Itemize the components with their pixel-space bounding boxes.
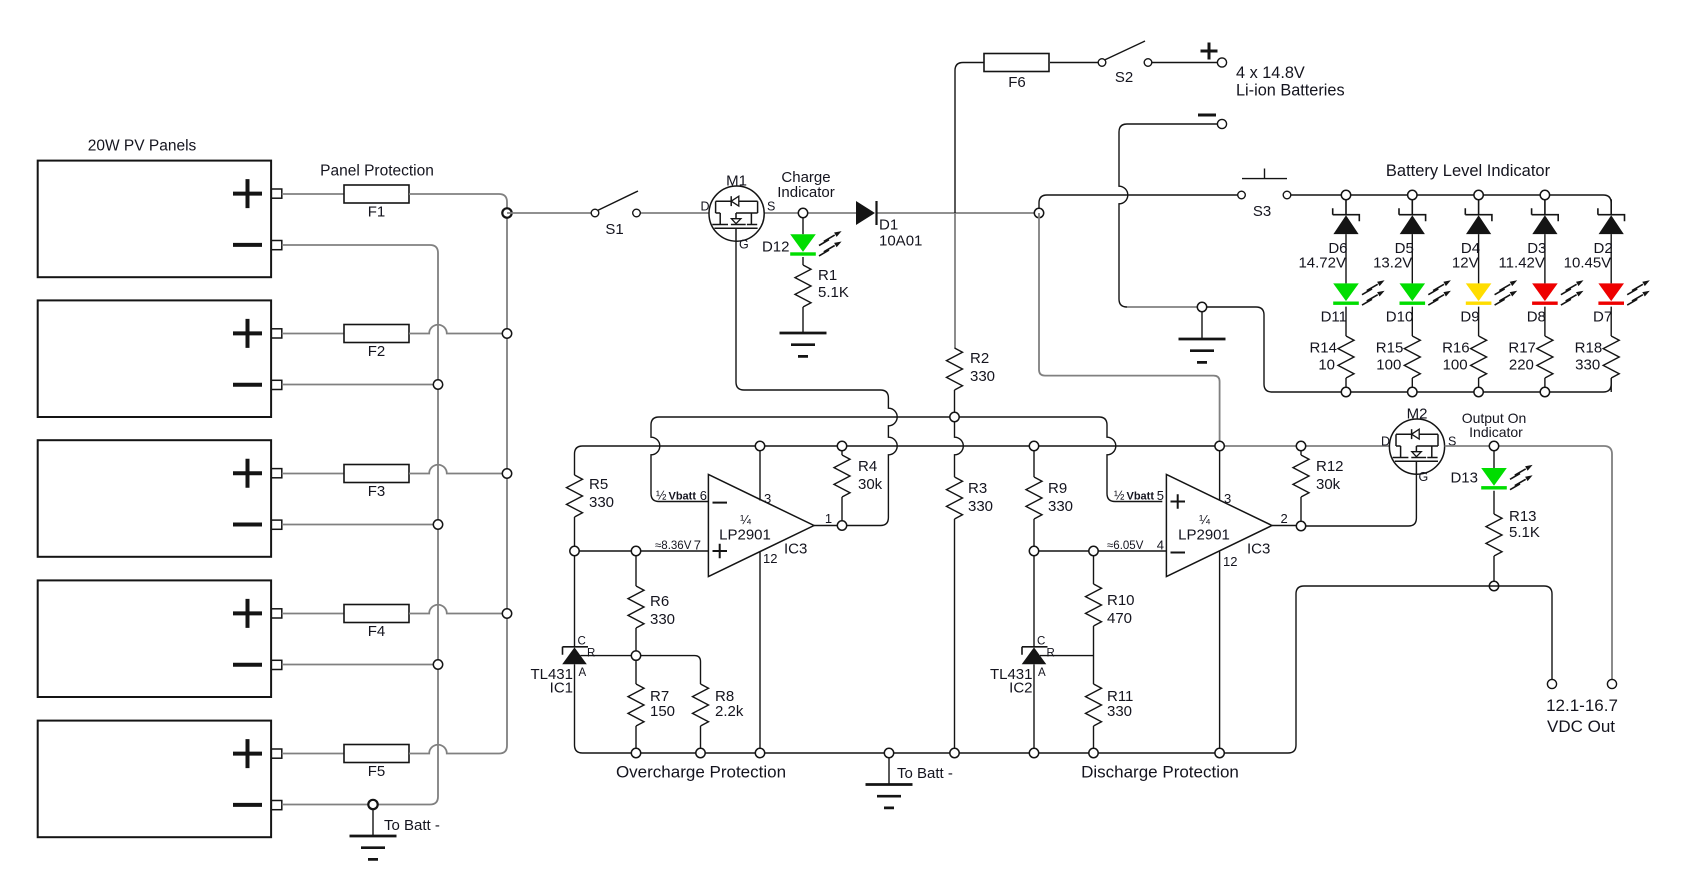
wire F1 output to PV+ bus — [409, 194, 507, 213]
svg-text:D9: D9 — [1460, 309, 1479, 326]
ground battery - — [1201, 312, 1203, 339]
op-amp IC3a LP2901 (overcharge comparator) — [708, 475, 814, 577]
svg-text:F1: F1 — [368, 204, 386, 221]
svg-text:F3: F3 — [368, 483, 386, 500]
svg-text:Overcharge Protection: Overcharge Protection — [616, 763, 786, 782]
node R10 top — [1089, 546, 1098, 555]
battery - terminal — [1217, 119, 1226, 128]
wire R13 node to minus output terminal — [1494, 586, 1552, 680]
resistor R10 470 — [1093, 555, 1095, 684]
fuse F3 — [344, 465, 409, 483]
node panel2 - junction — [433, 380, 442, 389]
node main bus junction — [1034, 208, 1043, 217]
svg-text:R5: R5 — [589, 476, 608, 493]
svg-text:11.42V: 11.42V — [1498, 255, 1544, 272]
PV panel 3 — [38, 440, 271, 557]
LED D7 — [1598, 283, 1624, 301]
wire common bottom bus (To Batt -) — [583, 752, 1289, 754]
resistor R5 330 — [567, 475, 583, 517]
PV panel 4 — [38, 580, 271, 697]
svg-text:R16: R16 — [1442, 340, 1470, 357]
wire battery - down with hop over main wire — [1119, 124, 1218, 307]
node R2-R3 divider midpoint — [950, 412, 959, 421]
svg-text:C: C — [1037, 635, 1045, 647]
wire TL431 IC1 anode to bottom bus — [575, 664, 583, 753]
wire F4 output with hop over minus bus — [409, 605, 507, 614]
node top bus D6 — [1341, 190, 1350, 199]
svg-text:S3: S3 — [1253, 203, 1271, 220]
node To Batt - tap on panel5 minus wire — [368, 800, 377, 809]
resistor R18 330 — [1610, 307, 1612, 392]
wire panel4 - to minus bus — [282, 664, 438, 666]
svg-text:R10: R10 — [1107, 592, 1135, 609]
wire Vbatt rail gray section to M2 — [1220, 445, 1390, 447]
svg-text:D12: D12 — [762, 239, 790, 256]
diode D1 10A01 — [856, 201, 875, 225]
wire D1 cathode to junction nodes — [878, 212, 1040, 214]
svg-text:R14: R14 — [1309, 340, 1337, 357]
node R6 top — [631, 546, 640, 555]
node pin3 feed junction — [1215, 441, 1224, 450]
svg-text:12V: 12V — [1452, 255, 1479, 272]
node panel4 - junction — [433, 660, 442, 669]
svg-text:R: R — [587, 647, 595, 659]
svg-text:½: ½ — [1114, 489, 1125, 503]
wire op-amp2 pin 3 to Vbatt rail — [1219, 446, 1221, 501]
node bottom bus R16 — [1474, 387, 1483, 396]
fuse F2 — [344, 325, 409, 343]
node op-amp2 pin12 bottom — [1215, 748, 1224, 757]
svg-text:R: R — [1047, 647, 1055, 659]
svg-text:4 x 14.8V: 4 x 14.8V — [1236, 64, 1305, 82]
svg-text:To Batt -: To Batt - — [384, 817, 440, 834]
svg-text:R9: R9 — [1048, 480, 1067, 497]
svg-text:¼: ¼ — [1199, 512, 1210, 527]
wire panel4 + to F4 — [282, 613, 344, 615]
wire op-amp1 pin 3 to Vbatt rail — [759, 446, 761, 501]
svg-text:G: G — [739, 238, 749, 252]
node R4 top on Vbatt rail — [837, 441, 846, 450]
svg-text:470: 470 — [1107, 610, 1132, 627]
svg-text:330: 330 — [968, 498, 993, 515]
resistor R1 — [802, 257, 804, 333]
svg-text:Vbatt: Vbatt — [1127, 491, 1155, 503]
svg-text:12: 12 — [763, 551, 777, 566]
svg-text:Indicator: Indicator — [1469, 424, 1523, 440]
svg-text:R6: R6 — [650, 593, 669, 610]
svg-text:330: 330 — [1048, 498, 1073, 515]
wire comparator output up to M1 gate with hops — [736, 241, 897, 525]
zener diode D5 13.2V — [1399, 199, 1426, 221]
svg-text:Vbatt: Vbatt — [669, 491, 697, 503]
svg-text:30k: 30k — [858, 476, 883, 493]
node top bus D5 — [1408, 190, 1417, 199]
svg-text:≈6.05V: ≈6.05V — [1107, 540, 1144, 552]
svg-text:Panel Protection: Panel Protection — [320, 163, 434, 180]
node F2 junction on PV+ bus — [502, 329, 511, 338]
shunt reference TL431 IC1 — [563, 647, 589, 655]
svg-text:3: 3 — [1224, 491, 1231, 506]
svg-text:330: 330 — [970, 368, 995, 385]
wire op-amp2 pin 12 to bottom bus — [1219, 552, 1221, 749]
svg-text:R3: R3 — [968, 480, 987, 497]
node R9 top on Vbatt rail — [1029, 441, 1038, 450]
wire PV bus to S1 — [507, 212, 592, 214]
svg-text:330: 330 — [589, 494, 614, 511]
svg-text:D11: D11 — [1321, 309, 1347, 326]
svg-text:S2: S2 — [1115, 69, 1133, 86]
svg-text:½: ½ — [656, 489, 667, 503]
zener diode D6 14.72V — [1333, 199, 1360, 221]
node main tap on PV+ bus — [502, 208, 511, 217]
resistor R13 5.1K — [1493, 491, 1495, 582]
switch S1 — [591, 209, 599, 217]
svg-text:To Batt -: To Batt - — [897, 765, 953, 782]
wire Vbatt rail corner into R5 — [575, 446, 583, 475]
ground To Batt - (PV section) — [372, 809, 374, 836]
svg-text:S: S — [767, 200, 775, 214]
node output pin2 / R12 bottom — [1296, 521, 1305, 530]
svg-text:12.1-16.7: 12.1-16.7 — [1546, 696, 1618, 715]
node To Batt - middle tap — [884, 748, 893, 757]
wire half-Vbatt from divider to both comparator references — [651, 417, 1162, 502]
switch S3 (pushbutton) — [1238, 191, 1246, 199]
resistor R11 330 — [1093, 726, 1095, 749]
output terminal minus — [1547, 679, 1556, 688]
node R7 bottom — [631, 748, 640, 757]
svg-text:IC3: IC3 — [784, 541, 807, 558]
svg-text:5: 5 — [1157, 488, 1164, 503]
svg-text:R12: R12 — [1316, 458, 1344, 475]
wire M1 source to D1 anode — [762, 212, 856, 214]
svg-text:150: 150 — [650, 703, 675, 720]
wire M2 source to output terminal — [1445, 446, 1612, 680]
node TL431 IC2 anode bottom — [1029, 748, 1038, 757]
node top bus D3 — [1540, 190, 1549, 199]
svg-text:R17: R17 — [1508, 340, 1536, 357]
node F3 junction on PV+ bus — [502, 469, 511, 478]
svg-text:C: C — [578, 635, 586, 647]
node R9 bottom — [1029, 546, 1038, 555]
node output/R4 junction — [837, 521, 846, 530]
node R6 bottom / reference junction — [631, 651, 640, 660]
svg-text:D8: D8 — [1527, 309, 1546, 326]
wire main bus jog up to battery level bus — [1039, 195, 1238, 213]
zener diode D4 12V — [1465, 199, 1492, 221]
wire F6 to S2 — [1050, 62, 1099, 64]
svg-text:D13: D13 — [1450, 470, 1478, 487]
LED D9 — [1466, 283, 1492, 301]
transistor M2 (P-MOSFET) — [1389, 419, 1444, 474]
node R12 top on Vbatt rail — [1296, 441, 1305, 450]
svg-text:F6: F6 — [1008, 74, 1026, 91]
wire TL431 IC2 cathode — [1033, 555, 1035, 646]
svg-text:100: 100 — [1443, 357, 1468, 374]
svg-text:S1: S1 — [605, 221, 623, 238]
wire PV+ bus vertical — [499, 213, 507, 754]
shunt reference TL431 IC2 — [1022, 647, 1048, 655]
transistor M1 (P-MOSFET) — [709, 186, 764, 241]
PV panel 2 — [38, 300, 271, 417]
resistor R7 150 — [635, 660, 637, 749]
PV panel 5 — [38, 721, 271, 838]
node output-on indicator tap — [1493, 446, 1495, 468]
fuse F5 — [344, 745, 409, 763]
wire TL431 IC1 R pin — [581, 655, 632, 657]
wire R3 below divider node with hop over Vbatt wire — [955, 417, 964, 477]
svg-text:D: D — [701, 200, 710, 214]
svg-text:LP2901: LP2901 — [719, 527, 771, 544]
wire op-amp1 output pin 1 — [814, 525, 838, 527]
svg-text:14.72V: 14.72V — [1298, 255, 1346, 272]
resistor R3 330 — [947, 477, 963, 519]
svg-text:IC2: IC2 — [1009, 680, 1032, 697]
fuse F1 — [344, 185, 409, 203]
wire op-amp1 pin 12 to bottom bus — [759, 552, 761, 749]
wire TL431 IC2 anode to bottom bus — [1033, 664, 1035, 748]
svg-text:10A01: 10A01 — [879, 233, 922, 250]
svg-text:2: 2 — [1281, 511, 1288, 526]
zener diode D3 11.42V — [1532, 199, 1559, 221]
node R5 bottom — [570, 546, 579, 555]
wire panel2 - to minus bus — [282, 384, 438, 386]
switch S2 — [1098, 59, 1106, 67]
resistor R15 100 — [1411, 307, 1413, 392]
resistor R9 330 — [1033, 450, 1035, 546]
node top bus D4 — [1474, 190, 1483, 199]
op-amp IC3b LP2901 (discharge comparator) — [1166, 475, 1272, 577]
node R13 bottom — [1489, 581, 1498, 590]
svg-text:330: 330 — [1575, 357, 1600, 374]
LED D13 output on indicator — [1481, 468, 1507, 486]
zener diode D2 10.45V — [1598, 199, 1625, 221]
svg-text:Battery Level Indicator: Battery Level Indicator — [1386, 162, 1551, 180]
wire TL431 IC2 R pin — [1040, 655, 1094, 657]
wire S3 to LED bus — [1290, 194, 1346, 196]
svg-text:4: 4 — [1157, 538, 1164, 553]
svg-text:R18: R18 — [1575, 340, 1603, 357]
svg-text:1: 1 — [825, 511, 832, 526]
resistor R16 100 — [1478, 307, 1480, 392]
node bottom bus R15 — [1408, 387, 1417, 396]
svg-text:R4: R4 — [858, 458, 877, 475]
ground To Batt - (middle) — [888, 757, 890, 784]
svg-text:R2: R2 — [970, 350, 989, 367]
wire S1 to M1 drain — [640, 212, 712, 214]
svg-text:F4: F4 — [368, 623, 386, 640]
svg-text:A: A — [579, 667, 587, 679]
node R3 bottom — [950, 748, 959, 757]
LED D12 charge indicator — [790, 234, 816, 252]
svg-text:5.1K: 5.1K — [1509, 524, 1540, 541]
svg-text:F2: F2 — [368, 343, 386, 360]
battery + terminal — [1217, 58, 1226, 67]
svg-text:3: 3 — [764, 491, 771, 506]
svg-text:A: A — [1038, 667, 1046, 679]
wire battery level bottom bus — [1272, 378, 1611, 392]
fuse F6 — [984, 54, 1049, 72]
LED D10 — [1400, 283, 1426, 301]
wire op-amp2 output pin 2 — [1272, 525, 1297, 527]
wire main node down to R2 — [954, 213, 956, 348]
svg-text:Discharge Protection: Discharge Protection — [1081, 763, 1239, 782]
wire panel3 - to minus bus — [282, 524, 438, 526]
svg-text:F5: F5 — [368, 763, 386, 780]
node F4 junction on PV+ bus — [502, 609, 511, 618]
svg-text:M1: M1 — [726, 173, 747, 190]
svg-text:10.45V: 10.45V — [1564, 255, 1612, 272]
resistor R12 30k — [1300, 450, 1302, 521]
node R8 bottom — [696, 748, 705, 757]
svg-text:13.2V: 13.2V — [1373, 255, 1412, 272]
fuse F4 — [344, 605, 409, 623]
LED D8 — [1532, 283, 1558, 301]
svg-text:D10: D10 — [1386, 309, 1414, 326]
svg-text:10: 10 — [1318, 357, 1335, 374]
resistor R4 30k — [841, 450, 843, 521]
wire F5 output with hop over minus bus — [409, 745, 499, 754]
svg-text:D: D — [1381, 435, 1390, 449]
node bottom bus R14 — [1341, 387, 1350, 396]
svg-text:6: 6 — [700, 488, 707, 503]
wire main bus to fuse F6 — [955, 63, 984, 214]
svg-text:R1: R1 — [818, 267, 837, 284]
wire panel2 + to F2 — [282, 333, 344, 335]
PV panel 1 — [38, 161, 271, 278]
svg-text:≈8.36V: ≈8.36V — [655, 540, 692, 552]
svg-text:¼: ¼ — [740, 512, 751, 527]
output terminal plus — [1607, 679, 1616, 688]
svg-text:12: 12 — [1223, 554, 1237, 569]
svg-text:330: 330 — [650, 611, 675, 628]
node bottom bus R17 — [1540, 387, 1549, 396]
wire F3 output with hop over minus bus — [409, 465, 507, 474]
wire R5 node to op-amp + input — [575, 550, 709, 552]
svg-text:R15: R15 — [1376, 340, 1404, 357]
svg-text:R13: R13 — [1509, 508, 1537, 525]
resistor R2 330 — [947, 348, 963, 390]
svg-text:2.2k: 2.2k — [715, 703, 744, 720]
wire panel1 + to F1 — [282, 193, 344, 195]
wire Vbatt feed from main bus (gray) — [1039, 213, 1220, 446]
wire panel5 + to F5 — [282, 753, 344, 755]
resistor R6 330 — [635, 555, 637, 651]
svg-text:20W PV Panels: 20W PV Panels — [88, 138, 197, 155]
svg-text:100: 100 — [1376, 357, 1401, 374]
svg-text:VDC Out: VDC Out — [1547, 717, 1615, 736]
wire R13 return to bottom bus — [1288, 586, 1494, 753]
resistor R17 220 — [1544, 307, 1546, 392]
svg-text:LP2901: LP2901 — [1178, 527, 1230, 544]
svg-text:Indicator: Indicator — [777, 184, 835, 201]
resistor R14 10 — [1345, 307, 1347, 392]
svg-text:Li-ion Batteries: Li-ion Batteries — [1236, 82, 1345, 100]
resistor R8 2.2k — [700, 726, 702, 749]
node charge indicator tap — [802, 213, 804, 234]
wire TL431 IC1 cathode — [574, 555, 576, 646]
svg-text:IC3: IC3 — [1247, 541, 1270, 558]
wire PV- bus vertical — [282, 245, 438, 805]
LED D11 — [1333, 283, 1359, 301]
node pin3 on Vbatt rail — [755, 441, 764, 450]
svg-text:7: 7 — [694, 538, 701, 553]
wire M2 gate to output node — [1305, 474, 1416, 526]
svg-text:G: G — [1419, 470, 1429, 484]
ground below R1 — [780, 333, 827, 356]
wire panel3 + to F3 — [282, 473, 344, 475]
svg-text:330: 330 — [1107, 703, 1132, 720]
node R11 bottom — [1089, 748, 1098, 757]
wire F2 output with hop over minus bus — [409, 325, 507, 334]
svg-text:30k: 30k — [1316, 476, 1341, 493]
node battery - ground tap — [1202, 307, 1272, 392]
wire battery level top bus — [1346, 195, 1611, 215]
wire Vbatt rail (black section) — [583, 445, 1216, 447]
wire reference node to R8 — [640, 656, 700, 684]
svg-text:220: 220 — [1509, 357, 1534, 374]
wire R9 bottom to op-amp2 - input — [1034, 550, 1166, 552]
node panel3 - junction — [433, 520, 442, 529]
wire S2 to battery + — [1151, 62, 1217, 64]
svg-text:IC1: IC1 — [550, 680, 573, 697]
svg-text:5.1K: 5.1K — [818, 284, 849, 301]
svg-text:D7: D7 — [1593, 309, 1612, 326]
svg-text:M2: M2 — [1407, 406, 1428, 423]
node op-amp1 pin12 bottom — [755, 748, 764, 757]
svg-text:D1: D1 — [879, 217, 898, 234]
